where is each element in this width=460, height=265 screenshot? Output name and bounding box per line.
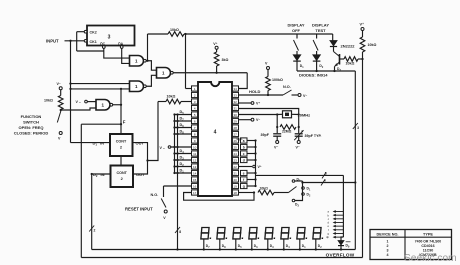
svg-text:16: 16 (193, 184, 197, 188)
junction crystal right (298, 113, 300, 115)
svg-text:V⁺: V⁺ (213, 42, 217, 46)
wire display D3 cathode (267, 240, 269, 250)
svg-text:e: e (243, 171, 245, 175)
svg-text:SWITCH: SWITCH (23, 120, 39, 125)
svg-text:21: 21 (234, 171, 238, 175)
resistor 3k (214, 52, 219, 66)
NAND gate 1C (157, 68, 171, 79)
wire digit drive D3 (175, 159, 192, 161)
svg-text:V⁺: V⁺ (360, 23, 365, 27)
terminal V- hold (298, 94, 301, 97)
display digit D7 seven-segment (201, 228, 212, 240)
svg-text:DISPLAY: DISPLAY (288, 23, 305, 28)
svg-text:TEST: TEST (315, 28, 326, 33)
svg-text:18: 18 (234, 191, 238, 195)
svg-text:V –: V – (160, 146, 165, 150)
segment feed arrow f (335, 229, 343, 231)
wire digit bus B /8 (177, 115, 179, 250)
prescaler U3 (11C90) box (87, 26, 135, 46)
svg-text:15: 15 (193, 178, 197, 182)
svg-text:4: 4 (324, 179, 326, 183)
capacitor 39pF left (273, 133, 281, 135)
junction gate 1B input 2 (120, 88, 122, 90)
svg-text:10kΩ: 10kΩ (44, 99, 53, 103)
svg-text:10: 10 (193, 145, 197, 149)
switch display 1 (296, 34, 298, 39)
wire bottom return rail (81, 257, 362, 259)
pin CK1 inversion bubble (84, 39, 87, 42)
svg-text:3: 3 (108, 35, 111, 41)
junction node F (120, 123, 122, 125)
svg-text:N.O.: N.O. (283, 85, 291, 89)
svg-text:19: 19 (234, 184, 238, 188)
wire gate 1A output up to top rail (147, 34, 149, 61)
svg-text:DIODES: IN914: DIODES: IN914 (299, 73, 328, 78)
svg-text:V⁺: V⁺ (256, 101, 260, 105)
wire gate 1B output to gate 1C input (146, 75, 157, 86)
wire bottom loop pin 17 (184, 193, 254, 201)
junction INPUT to gate 1B input (69, 82, 71, 84)
wire segment bus down (342, 175, 344, 237)
device table (370, 230, 452, 260)
bus marker /3 (353, 123, 358, 129)
junction V+ node (361, 58, 363, 60)
terminal V- cap left (276, 141, 279, 144)
display digit D6 seven-segment (249, 228, 260, 240)
wire oscillator pin over to crystal right (239, 109, 299, 115)
svg-text:CLOSED: PERIOD: CLOSED: PERIOD (14, 131, 49, 136)
svg-text:13: 13 (193, 165, 197, 169)
svg-text:V⁻: V⁻ (274, 146, 278, 150)
diode D1 IN914 (293, 55, 301, 61)
wire digit drive D₈ (175, 133, 192, 135)
LED D9 overflow (338, 241, 344, 246)
pin QC inversion bubble (102, 46, 105, 49)
wire gate 1B input 1 from INPUT (71, 83, 130, 85)
segment pin box g (241, 183, 248, 188)
IC U4 left pin boxes 1-17 (192, 86, 199, 91)
pin CK2 inversion bubble (84, 30, 87, 33)
transistor Q1 2N2222 (339, 54, 341, 65)
segment feed arrow d (335, 221, 343, 223)
svg-text:a: a (243, 139, 245, 143)
display digit D2 seven-segment (313, 228, 324, 240)
display digit D8 seven-segment (217, 228, 228, 240)
wire INPUT vertical down to D1 IN (70, 41, 72, 143)
display digit D3 seven-segment (265, 228, 276, 240)
svg-text:20: 20 (234, 178, 238, 182)
svg-text:3: 3 (387, 249, 389, 253)
svg-text:HOLD: HOLD (249, 89, 260, 94)
wire digit drive D₅ (175, 114, 192, 116)
wire to IC right pin 1 (239, 73, 248, 89)
svg-text:V⁻: V⁻ (303, 94, 307, 98)
wire digit drive D₆ (175, 127, 192, 129)
wire digit drive D1 (175, 172, 192, 174)
svg-text:INPUT: INPUT (46, 38, 59, 43)
wire gate 1B input 2 (71, 88, 130, 90)
resistor 10k function (58, 96, 63, 110)
svg-text:V⁻: V⁻ (256, 118, 260, 122)
svg-text:Q̅C: Q̅C (100, 42, 106, 46)
svg-text:TYPE: TYPE (423, 232, 433, 236)
junction one-shot outputs (146, 159, 148, 161)
terminal V+ mid right (239, 166, 252, 168)
segment pin box b (241, 144, 248, 149)
svg-text:22: 22 (234, 165, 238, 169)
svg-text:b: b (243, 145, 245, 149)
wire left drop to bottom rail 2 (80, 124, 82, 257)
svg-text:4: 4 (387, 253, 389, 257)
terminal V+ above 3k (215, 46, 218, 49)
svg-text:OVERFLOW: OVERFLOW (326, 253, 355, 258)
svg-text:V⁻: V⁻ (296, 146, 300, 150)
display digit D5 seven-segment (233, 228, 244, 240)
wire pin 10k selector (239, 192, 254, 194)
terminal V- function pullup (59, 87, 62, 90)
wire digit drive D4 (175, 153, 192, 155)
junction gate 1D output (120, 104, 122, 106)
wire CK2 to feedback (77, 31, 85, 33)
wire D2 IN (92, 173, 111, 175)
svg-text:12: 12 (193, 158, 197, 162)
resistor 22M (276, 115, 278, 134)
svg-text:17: 17 (193, 191, 197, 195)
terminal reset V- (164, 210, 167, 213)
resistor 10k top rail (168, 32, 184, 37)
NAND gate 1B (130, 81, 144, 92)
svg-text:CD4016: CD4016 (421, 244, 434, 248)
junction function node (60, 109, 62, 111)
svg-text:28: 28 (234, 126, 238, 130)
IC U4 right pin boxes 18-34 (232, 86, 239, 91)
wire function node to gate 1D input (61, 108, 96, 110)
wire down to IC pin 1 (185, 34, 187, 89)
segment pin box e (241, 170, 248, 175)
wire HOLD (239, 94, 283, 96)
svg-text:10kΩ: 10kΩ (368, 43, 377, 47)
wire control bus /3 vertical (354, 71, 356, 250)
svg-text:39pF: 39pF (261, 133, 270, 137)
svg-text:V⁻: V⁻ (57, 82, 61, 86)
wire diode bus (297, 70, 355, 72)
switch N.O. hold (283, 90, 292, 95)
wire QC down to gate 1A input (104, 48, 130, 58)
wire V terminal to gate 1D (87, 101, 96, 103)
svg-text:g: g (243, 184, 245, 188)
wire digit drive D₇ (175, 120, 192, 122)
svg-text:RESET INPUT: RESET INPUT (125, 207, 153, 212)
svg-text:7400 OR 74LS00: 7400 OR 74LS00 (415, 239, 442, 243)
wire gate 1C output (173, 72, 217, 74)
svg-text:11: 11 (193, 152, 196, 156)
NAND gate 1D (96, 100, 110, 111)
junction INPUT node (69, 40, 71, 42)
terminal V+ top right (361, 28, 364, 31)
junction 3k pulldown node (215, 72, 217, 74)
svg-text:CK1: CK1 (90, 40, 97, 44)
svg-text:34: 34 (234, 87, 238, 91)
wire crystal left node (239, 114, 278, 116)
wire display D6 cathode (251, 240, 253, 250)
svg-text:DISPLAY: DISPLAY (312, 23, 329, 28)
svg-text:10kΩ: 10kΩ (346, 62, 355, 66)
terminal V- cap right (297, 141, 300, 144)
svg-text:Seekic.com: Seekic.com (404, 253, 457, 264)
svg-text:29: 29 (234, 119, 238, 123)
wire feedback horizontal (77, 50, 104, 52)
svg-text:3: 3 (357, 126, 359, 130)
svg-text:OFF: OFF (292, 28, 301, 33)
svg-text:c: c (243, 152, 245, 156)
svg-text:100kΩ: 100kΩ (272, 78, 283, 82)
display digit D1 seven-segment (297, 228, 308, 240)
wire segment bus /8 (256, 174, 344, 176)
segment feed arrow c (335, 218, 343, 220)
wire gate 1D output (112, 104, 121, 106)
svg-text:14: 14 (193, 171, 197, 175)
function switch arm (57, 112, 60, 123)
trim capacitor 39pF TYP (295, 133, 303, 135)
bus marker /8 segments (322, 172, 326, 178)
svg-text:2: 2 (94, 229, 96, 233)
segment pin box f (241, 177, 248, 182)
segment pin box d (241, 157, 248, 162)
svg-text:8: 8 (325, 172, 327, 176)
terminal V function switch (59, 132, 62, 135)
terminal V- pin r6 (239, 119, 251, 121)
terminal D3 (292, 199, 295, 202)
junction HOLD 100k (267, 94, 269, 96)
svg-text:10kΩ: 10kΩ (167, 95, 176, 99)
wire bus /4 (303, 182, 356, 184)
svg-text:2: 2 (387, 244, 389, 248)
svg-text:2N2222: 2N2222 (341, 44, 356, 49)
wire one-shot out to 10k (148, 102, 159, 161)
one-shot U2b (CD4016) box (111, 166, 134, 188)
junction D2 IN bus tap (91, 173, 93, 175)
svg-text:F: F (123, 119, 126, 124)
NAND gate 1A (130, 56, 144, 67)
terminal D1 (302, 187, 305, 190)
terminal D2 (302, 193, 305, 196)
wire F into one-shot 1 top (120, 124, 122, 134)
junction top rail to IC pin1 (184, 33, 186, 35)
segment feed arrow b (335, 214, 343, 216)
wire bottom digit rail (92, 249, 356, 251)
resistor 10k pullup (360, 37, 365, 52)
reset switch arm N.O. (161, 199, 166, 208)
wire F to left drop (81, 123, 121, 125)
wire gate 1A output to gate 1C input (146, 61, 157, 70)
segment feed arrow dp (335, 236, 343, 238)
svg-text:33: 33 (234, 93, 238, 97)
IC U4 (ICM7226B) body (198, 82, 232, 196)
svg-text:10kΩ: 10kΩ (170, 28, 179, 32)
wire display D1 cathode (299, 240, 301, 250)
wire QA down to gate 1A input 2 (122, 48, 130, 63)
svg-text:FUNCTION: FUNCTION (21, 114, 42, 119)
svg-text:27: 27 (234, 132, 238, 136)
wire one-shot2 out (133, 161, 148, 175)
svg-text:4: 4 (214, 130, 217, 136)
wire display D5 cathode (235, 240, 237, 250)
svg-text:30: 30 (234, 113, 238, 117)
display digit D4 seven-segment (281, 228, 292, 240)
svg-text:DEVICE NO.: DEVICE NO. (377, 232, 399, 236)
wire between one-shots (120, 156, 122, 166)
svg-text:V⁺: V⁺ (258, 165, 262, 169)
wire V+ vertical to bottom rail (362, 59, 364, 258)
diode D2 IN914 (313, 55, 321, 61)
wire top rail to D3 (332, 34, 334, 41)
resistor 100k hold pullup (267, 91, 269, 96)
svg-text:25: 25 (234, 145, 238, 149)
segment pin box c (241, 151, 248, 156)
wire display D4 cathode (283, 240, 285, 250)
junction crystal left (276, 113, 278, 115)
svg-text:11C90: 11C90 (423, 249, 433, 253)
svg-text:32: 32 (234, 100, 238, 104)
wire one-shot1 out (133, 143, 148, 161)
wire display D8 cathode (219, 240, 221, 250)
terminal V+ pin r3 (239, 102, 251, 104)
selector switch arm (289, 187, 297, 193)
wire feedback vertical (76, 32, 78, 51)
svg-text:N.O.: N.O. (151, 193, 159, 197)
wire display D2 cathode (315, 240, 317, 250)
wire up to gate 1B input 2 (120, 89, 122, 105)
wire base (340, 58, 345, 60)
wire reset to pin 16 (164, 185, 192, 187)
resistor 10k base (344, 57, 358, 62)
wire digit bus A (174, 115, 176, 174)
wire digit bus left /2 (91, 174, 93, 250)
wire selector common (295, 180, 303, 182)
svg-text:31: 31 (234, 106, 238, 110)
resistor 10k into pin 3 (158, 101, 166, 103)
segment feed arrow e (335, 225, 343, 227)
wire INPUT to CK1 (65, 40, 85, 42)
junction selector to /4 bus (301, 181, 303, 183)
svg-text:8: 8 (179, 230, 181, 234)
svg-text:3kΩ: 3kΩ (222, 58, 229, 62)
switch display 2 (316, 34, 318, 39)
wire digit drive D2 (175, 166, 192, 168)
svg-text:CONT: CONT (116, 140, 127, 144)
segment pin box a (241, 138, 248, 143)
svg-text:22MΩ: 22MΩ (282, 130, 292, 134)
svg-text:10MHz: 10MHz (298, 112, 311, 117)
wire stack to overflow LED (341, 237, 343, 241)
svg-text:24: 24 (234, 152, 238, 156)
crystal Y1 10MHz (283, 111, 292, 118)
bus marker /8 (175, 227, 180, 233)
resistor 10k selector (258, 190, 274, 195)
terminal D0 (292, 180, 295, 183)
bus marker /2 (89, 226, 94, 232)
wire D1 IN (71, 142, 111, 144)
wire V- to 10k (60, 90, 62, 96)
segment feed arrow a (335, 211, 343, 213)
svg-text:10kΩ: 10kΩ (260, 187, 269, 191)
diode D3 (330, 41, 337, 46)
one-shot U2a (CD4016) box (110, 134, 133, 156)
svg-text:23: 23 (234, 158, 238, 162)
svg-text:OPEN: FREQ: OPEN: FREQ (19, 125, 44, 130)
svg-text:CONT: CONT (116, 171, 127, 175)
bus marker /4 (321, 180, 325, 186)
svg-text:39pF TYP.: 39pF TYP. (305, 134, 322, 138)
svg-text:1: 1 (387, 239, 389, 243)
svg-text:d: d (243, 158, 245, 162)
segment feed arrow g (335, 232, 343, 234)
junction INPUT to gate 1B input 2 (69, 88, 71, 90)
wire segment collector (255, 141, 257, 187)
pin QA inversion bubble (120, 46, 123, 49)
wire top rail (148, 33, 169, 35)
svg-text:CK2: CK2 (90, 31, 97, 35)
svg-text:V –: V – (76, 100, 81, 104)
wire display D7 cathode (203, 240, 205, 250)
wire F node vertical (120, 105, 122, 124)
